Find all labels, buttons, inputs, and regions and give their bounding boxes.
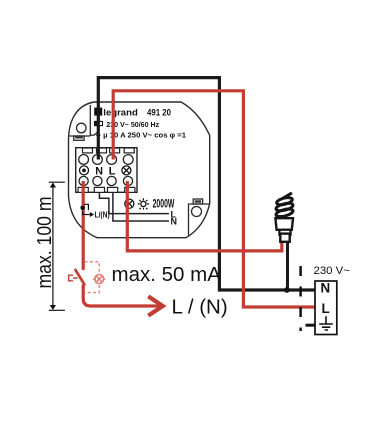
svg-text:2000W: 2000W <box>153 197 175 211</box>
terminal screws bottom row <box>79 176 133 185</box>
dimension line max 100 m <box>49 182 65 310</box>
svg-text:L: L <box>109 165 116 177</box>
earth wire stub <box>306 324 316 327</box>
wire red switched line from lamp-terminal to CFL <box>127 181 281 251</box>
device plate outline U1 Legrand 491 20 <box>68 102 209 238</box>
svg-text:legrand: legrand <box>103 108 138 119</box>
wall dashed line <box>299 266 302 331</box>
wire red L top loop <box>113 91 315 307</box>
internal wire to L rail <box>99 192 168 213</box>
switch S1 neon indicator dashed box <box>85 262 100 293</box>
svg-text:N: N <box>321 280 331 295</box>
lamp symbol on plate <box>125 199 134 208</box>
rating line: µ 10 A 250 V~ cos <box>90 131 187 140</box>
CFL lamp coil <box>275 194 293 218</box>
node junction dot N <box>284 287 290 293</box>
svg-text:L/(N): L/(N) <box>95 210 111 219</box>
switch S1 neon lamp <box>93 275 105 284</box>
svg-text:L / (N): L / (N) <box>172 296 228 319</box>
svg-text:max. 100 m: max. 100 m <box>33 197 56 289</box>
svg-text:L: L <box>322 301 330 316</box>
arrow head L/(N) <box>150 298 163 315</box>
svg-text:N: N <box>171 216 178 226</box>
earth symbol <box>319 316 333 330</box>
terminal block outline <box>76 148 137 193</box>
svg-text:491 20: 491 20 <box>147 108 171 119</box>
svg-text:max. 50 mA: max. 50 mA <box>112 263 222 286</box>
internal wire to N rail <box>113 192 169 221</box>
terminal labels row: ground dot, N, L, lamp <box>80 165 131 177</box>
svg-text:µ 10 A 250 V~ cos φ =1: µ 10 A 250 V~ cos φ =1 <box>103 131 187 140</box>
svg-text:N: N <box>95 165 103 177</box>
terminal slots bottom <box>78 187 135 192</box>
CFL lamp base <box>275 218 293 242</box>
plate screw hole top-left <box>69 105 91 140</box>
terminal entry slots top <box>83 148 135 153</box>
terminal screws top row <box>79 155 133 165</box>
switch S1 pushbutton actuator E <box>69 275 78 281</box>
node: junction dot on switch wire with L/(N) marker <box>82 181 85 270</box>
supply terminal block outline <box>315 281 337 335</box>
rating line: 230 V~ 50/60 Hz <box>95 120 160 129</box>
wire red from switch to L/(N) arrow <box>83 285 161 307</box>
switch S1 blade <box>76 270 85 285</box>
brightness symbol <box>138 198 149 209</box>
svg-text:230 V~: 230 V~ <box>314 265 351 277</box>
wire black lamp to N junction <box>286 241 289 290</box>
plate screw hole bottom-right <box>189 199 210 236</box>
legrand logo <box>94 108 138 119</box>
wire black N top loop <box>98 78 314 290</box>
